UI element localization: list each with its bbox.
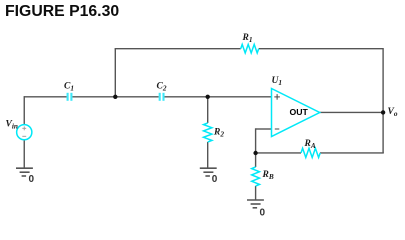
wire: R1 to top right corner (259, 48, 383, 50)
wire: source circle to ground (23, 140, 25, 168)
capacitor C1 plates (68, 93, 72, 101)
resistor RA zigzag (301, 148, 320, 157)
svg-text:RA: RA (304, 139, 316, 150)
node A junction dot (113, 95, 117, 99)
wire: C1 right plate to C2 left plate (73, 96, 159, 98)
ground at R2 (200, 168, 217, 176)
op-amp U1 triangle (272, 89, 320, 137)
svg-text:U1: U1 (272, 76, 283, 87)
svg-text:Vin: Vin (6, 120, 18, 131)
wire: right vertical through Vo down to RA corner (382, 48, 384, 153)
svg-text:Vo: Vo (388, 107, 398, 118)
svg-text:RB: RB (262, 170, 274, 181)
voltage source Vin circle (17, 125, 32, 140)
wire: node C down to RB (255, 153, 257, 167)
node Vo junction dot (381, 110, 385, 114)
wire: RB bottom to ground (255, 186, 257, 200)
svg-text:R2: R2 (213, 128, 224, 139)
node C junction dot (253, 151, 257, 155)
source plus mark (22, 126, 26, 130)
wire: RA to bottom right corner (320, 152, 384, 154)
wire: left vertical, corner down to source circle (23, 96, 25, 125)
op-amp plus input mark (274, 94, 280, 100)
ground at Vin (16, 168, 33, 176)
wire: node C to RA (256, 152, 301, 154)
capacitor C2 plates (160, 93, 164, 101)
svg-text:C1: C1 (64, 82, 74, 93)
wire: feedback vertical from node A up (114, 49, 116, 97)
figure caption (5, 3, 119, 21)
wire: inverting input vertical down to node C (255, 128, 257, 153)
wire: R2 bottom to ground (207, 142, 209, 168)
resistor R2 zigzag (204, 123, 212, 142)
node B junction dot (206, 95, 210, 99)
wire: inverting input horizontal (256, 128, 272, 130)
wire: R2 top, node B down to R2 (207, 97, 209, 123)
svg-text:R1: R1 (242, 33, 253, 44)
resistor R1 zigzag (241, 44, 259, 53)
source minus mark (22, 135, 26, 137)
wire: C2 right plate to op-amp + input (165, 96, 272, 98)
svg-text:OUT: OUT (290, 107, 309, 117)
resistor RB zigzag (252, 167, 260, 186)
ground at RB (247, 200, 264, 208)
wire: top horizontal to R1 (115, 48, 241, 50)
svg-text:0: 0 (29, 174, 35, 185)
svg-text:0: 0 (260, 208, 266, 219)
wire: op-amp output to Vo node (320, 111, 383, 113)
svg-text:0: 0 (212, 174, 218, 185)
svg-text:C2: C2 (157, 82, 167, 93)
wire: middle horizontal, Vin corner to C1 left plate (24, 96, 66, 98)
op-amp minus input mark (275, 128, 280, 130)
